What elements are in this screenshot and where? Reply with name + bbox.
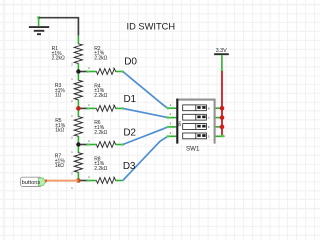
svg-text:2: 2 <box>88 139 90 143</box>
svg-text:2: 2 <box>71 99 73 103</box>
svg-text:1Ω: 1Ω <box>55 93 62 99</box>
svg-text:SW1: SW1 <box>186 146 200 153</box>
svg-text:4: 4 <box>170 131 172 135</box>
svg-text:1kΩ: 1kΩ <box>55 163 64 169</box>
svg-text:2: 2 <box>88 175 90 179</box>
svg-text:2: 2 <box>88 66 90 70</box>
svg-text:1kΩ: 1kΩ <box>55 128 64 134</box>
svg-text:2.2kΩ: 2.2kΩ <box>94 166 107 172</box>
svg-text:2.2kΩ: 2.2kΩ <box>94 56 107 62</box>
svg-text:2: 2 <box>71 171 73 175</box>
svg-text:2.2kΩ: 2.2kΩ <box>94 93 107 99</box>
svg-text:1: 1 <box>71 150 73 154</box>
svg-text:D3: D3 <box>123 161 136 172</box>
svg-text:2: 2 <box>170 112 172 116</box>
svg-text:buttons: buttons <box>22 180 41 186</box>
svg-text:2.2kΩ: 2.2kΩ <box>94 130 107 136</box>
svg-text:2.2kΩ: 2.2kΩ <box>52 56 65 62</box>
svg-text:3.3V: 3.3V <box>216 48 227 54</box>
svg-text:1: 1 <box>71 114 73 118</box>
svg-text:3: 3 <box>170 122 172 126</box>
svg-text:2: 2 <box>71 62 73 66</box>
svg-text:1: 1 <box>71 186 73 190</box>
svg-text:1: 1 <box>71 77 73 81</box>
svg-text:D0: D0 <box>124 57 137 68</box>
svg-text:D2: D2 <box>123 127 136 138</box>
svg-text:1: 1 <box>170 103 172 107</box>
svg-text:ID SWITCH: ID SWITCH <box>127 21 176 31</box>
svg-text:D1: D1 <box>124 94 137 105</box>
svg-text:2: 2 <box>71 135 73 139</box>
svg-text:ON: ON <box>178 121 182 127</box>
svg-text:2: 2 <box>88 103 90 107</box>
